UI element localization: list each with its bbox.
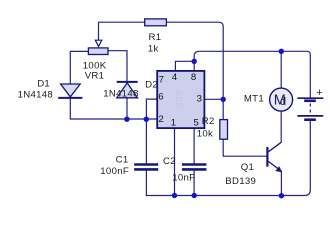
svg-text:C1: C1: [116, 155, 129, 166]
wire pin5 to C2: [193, 128, 195, 163]
wire R2-bottom to Q1 base: [223, 139, 266, 156]
wire wiper-to-R1: [99, 22, 145, 41]
potentiometer VR1: [83, 40, 108, 81]
junction node pin4/pin8: [192, 59, 197, 64]
svg-text:4: 4: [172, 72, 178, 83]
wire pin3-node to R2: [222, 99, 224, 119]
svg-text:10nF: 10nF: [172, 172, 195, 183]
wire C1 to ground rail: [145, 171, 147, 196]
wire Vcc to motor: [280, 51, 282, 88]
svg-text:R1: R1: [149, 32, 162, 43]
svg-text:D1: D1: [37, 79, 50, 90]
transistor Q1: [225, 142, 282, 187]
wire emitter to ground: [280, 171, 282, 195]
svg-text:VR1: VR1: [85, 71, 105, 82]
wire VR1-right to D2: [108, 51, 127, 81]
junction node pin1/ground: [172, 193, 177, 198]
svg-text:8: 8: [191, 72, 196, 83]
capacitor C1: [100, 155, 158, 177]
wire VR1-left to D1: [70, 51, 88, 84]
svg-text:55: 55: [176, 103, 184, 110]
diode D1: [18, 79, 83, 101]
svg-text:100nF: 100nF: [100, 166, 129, 177]
junction node pin3/R1/R2: [221, 97, 226, 102]
svg-text:7: 7: [159, 74, 164, 85]
svg-text:5: 5: [194, 117, 199, 128]
svg-text:1N4148: 1N4148: [18, 89, 53, 100]
motor MT1: [244, 88, 293, 111]
wire ground rail: [146, 121, 310, 196]
wire D1 to pin2 rail: [70, 99, 157, 119]
svg-text:Q1: Q1: [241, 162, 254, 173]
svg-text:C2: C2: [163, 156, 176, 167]
junction node C2/ground: [192, 193, 197, 198]
svg-text:3: 3: [197, 94, 202, 105]
resistor R1: [145, 19, 167, 54]
op-amp U1 555 timer body: [157, 71, 204, 128]
junction node D2/pin2 rail: [124, 117, 129, 122]
wire pin1 to ground: [174, 128, 176, 195]
svg-text:d: d: [280, 96, 286, 108]
svg-text:10k: 10k: [197, 129, 213, 140]
svg-text:D2: D2: [145, 79, 158, 90]
wire pin6 to pin2 node: [146, 99, 157, 119]
wire Vcc rail: [194, 51, 310, 97]
junction node emitter/ground: [279, 193, 284, 198]
diode D2: [103, 79, 158, 99]
svg-text:+: +: [316, 87, 322, 99]
svg-text:1k: 1k: [148, 43, 159, 54]
wire C2 to ground: [193, 171, 195, 196]
junction node Vcc/motor: [279, 49, 284, 54]
svg-text:1N4148: 1N4148: [103, 89, 138, 100]
svg-text:6: 6: [158, 92, 163, 103]
wire pin2/6 node to C1: [145, 119, 147, 163]
resistor R2: [197, 116, 228, 140]
svg-text:1: 1: [171, 117, 176, 128]
wire R1-right to pin3 node: [166, 22, 223, 99]
wire D2 to pin2 rail: [126, 98, 128, 119]
wire motor-bottom to collector: [280, 111, 282, 142]
wire pin3 stub: [204, 98, 223, 100]
svg-text:MT1: MT1: [244, 93, 264, 104]
capacitor C2: [163, 156, 206, 184]
battery BT1: [297, 87, 323, 120]
junction node pin2/pin6/C1: [144, 117, 149, 122]
wire pin4 pin8 harness: [175, 61, 194, 71]
svg-text:BD139: BD139: [225, 176, 256, 187]
svg-text:R2: R2: [202, 116, 215, 127]
svg-text:2: 2: [158, 114, 163, 125]
